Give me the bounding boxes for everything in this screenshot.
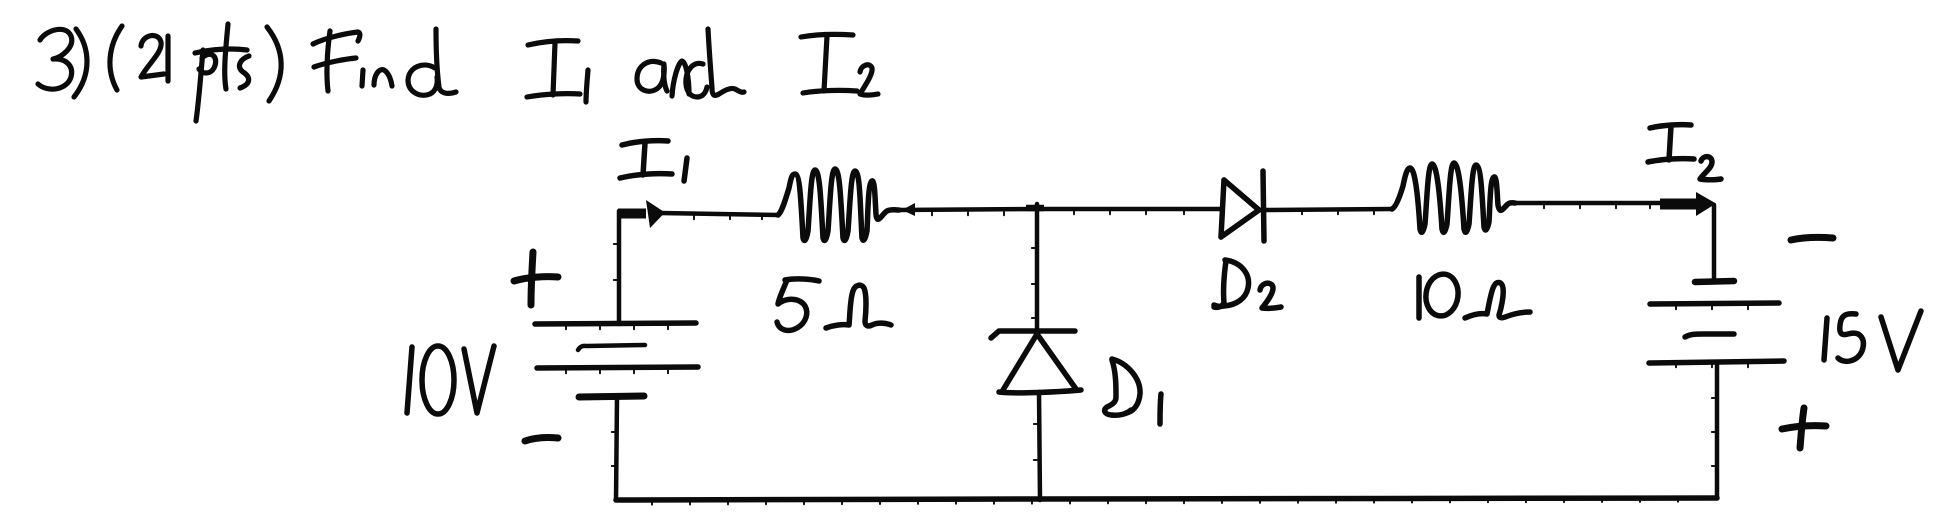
- battery B1 plus sign: [531, 252, 533, 305]
- letter F: [313, 32, 360, 44]
- word and: [637, 61, 664, 91]
- diode D1 cathode bar: [991, 331, 1075, 338]
- letters in: [362, 70, 363, 86]
- wire node A to diode D2: [1037, 207, 1222, 212]
- 10 ohm label: [1416, 277, 1422, 318]
- resistor 10 ohm coil: [1392, 163, 1515, 232]
- letter p: [196, 50, 203, 121]
- wire ticks: [566, 205, 1748, 505]
- digit 3: [38, 29, 72, 89]
- letter t: [225, 24, 228, 89]
- wire top-left vertical: [617, 211, 622, 324]
- 15V label: [1824, 318, 1827, 360]
- wire right corner down to battery: [1712, 205, 1717, 278]
- wire arrow to resistor R1: [660, 213, 778, 215]
- node A junction blob: [1026, 205, 1044, 212]
- battery B2 plate short top: [1695, 281, 1734, 282]
- small tick arrowhead on wire: [902, 203, 915, 216]
- diode D2 cathode bar: [1263, 171, 1264, 241]
- battery B2 plate long bottom: [1649, 361, 1784, 363]
- D1 label: [1105, 360, 1131, 415]
- digit 2: [141, 35, 164, 77]
- paren ) after 3: [74, 29, 87, 97]
- I2 in title: [801, 34, 853, 37]
- letter s: [239, 56, 249, 88]
- battery B1 plate long mid: [537, 367, 698, 368]
- wire battery B1 to bottom: [616, 397, 617, 500]
- wire resistor R2 to I2 arrow: [1513, 201, 1662, 206]
- resistor 5 ohm coil: [778, 169, 899, 240]
- bottom wire: [616, 498, 1717, 500]
- battery B2 plate long: [1650, 303, 1779, 304]
- wire D1 to bottom: [1039, 392, 1040, 500]
- D2 label: [1214, 261, 1226, 307]
- wire resistor R1 to node A: [898, 209, 1037, 210]
- I2 current label: [1650, 125, 1691, 128]
- title text "3) (21 pts) Find I1 and I2": [38, 24, 878, 121]
- battery B1 plate short: [578, 345, 645, 350]
- 10V label: [407, 347, 412, 413]
- paren ) closing: [267, 27, 281, 101]
- battery B1 plate short bottom: [579, 396, 644, 397]
- I1 in title: [528, 41, 578, 45]
- diode D2 triangle: [1221, 180, 1224, 237]
- wire D2 to resistor R2: [1265, 209, 1392, 210]
- battery B1 plate long top: [535, 323, 696, 324]
- paren (: [110, 26, 122, 90]
- digit 1: [165, 36, 170, 81]
- minus sign B1: [525, 437, 558, 441]
- 5 ohm label: [785, 279, 819, 281]
- wire node A vertical down: [1035, 204, 1040, 332]
- I1 arrow: [618, 209, 646, 219]
- minus sign B2: [1791, 237, 1833, 240]
- wire battery B2 to bottom: [1715, 362, 1720, 498]
- letter d: [408, 65, 437, 95]
- I2 arrow: [1660, 199, 1699, 210]
- diode D1 triangle: [1003, 334, 1037, 390]
- battery B2 plate short mid: [1685, 334, 1734, 337]
- I1 current label: [622, 141, 668, 145]
- plus sign B2: [1800, 408, 1804, 448]
